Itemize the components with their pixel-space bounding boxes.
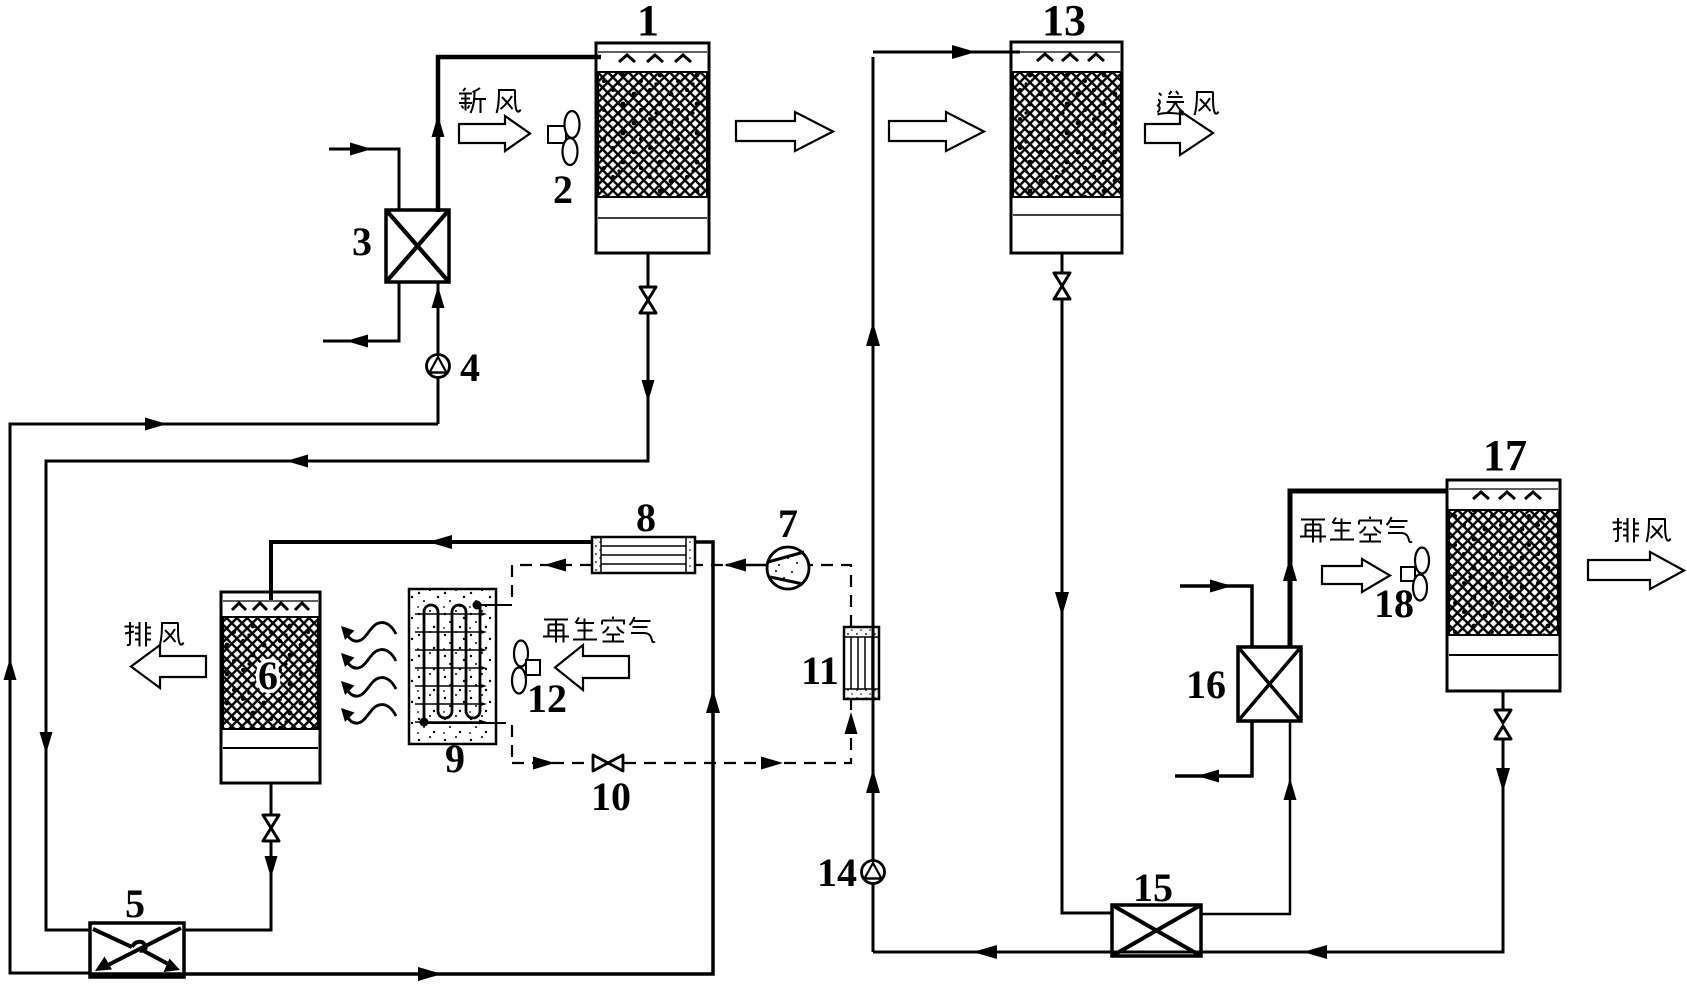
wire: dashed coil9 bottom to valve10	[512, 725, 592, 763]
flow arrow right after valve10	[761, 757, 783, 770]
flow arrow right on inlet stub	[350, 143, 372, 156]
fan 2 (square + propeller)	[548, 111, 580, 165]
svg-text:12: 12	[527, 676, 567, 721]
wire: dashed exchanger11 top to pump7	[809, 565, 851, 627]
wavy heat arrow 4	[341, 705, 396, 724]
hollow arrow exhaust air from tower17 (right)	[1588, 552, 1684, 589]
flow arrow left on hx16 outlet	[1197, 770, 1219, 783]
flow arrow down on tower1 drain	[642, 380, 655, 402]
shell heat exchanger 8 (horizontal)	[592, 537, 695, 573]
wire: bottom right line tower17 drain to pump14	[873, 691, 1503, 952]
svg-text:10: 10	[591, 774, 631, 819]
text 再生空气 (regeneration air, right)	[1300, 520, 1326, 543]
flow arrow up above exchanger16	[1283, 557, 1297, 581]
flow arrow up into exchanger16	[1284, 778, 1297, 800]
flow arrow up on pipe to tower1	[432, 115, 445, 137]
flow arrow left on y461 line	[286, 455, 308, 468]
shell heat exchanger 11 (vertical)	[844, 627, 879, 699]
svg-text:14: 14	[817, 850, 857, 895]
hollow arrow supply air out of tower13	[1145, 111, 1213, 155]
heat exchanger 15 (box with X)	[1112, 905, 1201, 956]
wire: dashed valve10 to exchanger11	[624, 699, 851, 763]
flow arrow right into tower13	[952, 45, 976, 59]
svg-text:1: 1	[637, 0, 659, 45]
wire: dashed pump7 to exchanger8	[696, 564, 723, 566]
wire: feed pipe exchanger3 to tower1 top	[438, 57, 601, 212]
wire: tower1 drain down to exchanger5 left	[46, 253, 648, 930]
svg-text:6: 6	[258, 653, 278, 698]
flow arrow up on x713 riser	[706, 689, 720, 713]
regenerator tower 17	[1447, 480, 1560, 691]
flow arrow left on dashed to coil9	[544, 559, 566, 572]
flow arrow left on y952 line	[1303, 945, 1327, 959]
dehumidifier tower 1	[596, 43, 709, 253]
wire: main riser pump14 to tower13 top	[873, 52, 1020, 952]
wire: long return line from exchanger5 to pump4	[10, 424, 438, 973]
svg-text:11: 11	[801, 648, 839, 693]
wire: pump4 riser into exchanger 3	[437, 282, 440, 424]
wire: coil9 top connector	[477, 604, 512, 606]
flow arrow right on hx16 inlet	[1210, 580, 1232, 593]
valve under tower1	[640, 287, 656, 313]
flow arrow up on x10 line	[4, 658, 17, 680]
svg-text:3: 3	[352, 219, 372, 264]
flow arrow down on tower6 drain	[265, 856, 278, 878]
flow arrow left between pump7 and exchanger8	[724, 559, 746, 572]
compressor 7 (circle with chords)	[767, 547, 809, 589]
flow arrow right before valve10	[533, 757, 555, 770]
svg-text:15: 15	[1133, 865, 1173, 910]
svg-text:9: 9	[445, 736, 465, 781]
text 送风 (supply air)	[1158, 91, 1185, 115]
hollow arrow exhaust air from tower6 (left)	[131, 645, 206, 688]
wire: dashed exchanger8 to coil9 top	[512, 565, 592, 605]
pump 4 (circle with triangle)	[427, 355, 450, 378]
heat exchanger 16 (box with X)	[1238, 647, 1301, 721]
wire: exchanger16 to tower17 top	[1290, 491, 1447, 647]
text 排风 (exhaust air, left)	[125, 622, 152, 647]
svg-text:5: 5	[125, 881, 145, 926]
valve under tower13	[1054, 273, 1070, 299]
wire: heating water inlet stub to exchanger16	[1180, 586, 1252, 647]
valve under tower6	[263, 815, 279, 841]
wire: cooling water inlet stub to exchanger 3	[329, 149, 399, 210]
flow arrow down on tower17 drain	[1496, 768, 1510, 792]
solution heat exchanger 5 (box with crossed arrows)	[90, 923, 184, 977]
dehumidifier tower 13	[1011, 42, 1122, 253]
hollow arrow into tower13	[889, 112, 984, 151]
flow arrow up on riser below tower13	[866, 322, 880, 346]
wire: bottom line exchanger5 to riser x713	[90, 542, 713, 974]
text 再生空气 (regeneration air, left)	[543, 620, 569, 643]
svg-text:18: 18	[1374, 581, 1414, 626]
hollow arrow tower1 outlet	[736, 112, 833, 151]
hollow arrow regeneration air into tower17	[1322, 559, 1390, 592]
flow arrow right on bottom line	[418, 967, 442, 981]
regenerator tower 6	[221, 592, 320, 783]
wavy heat arrow 3	[341, 678, 396, 697]
hollow arrow fresh air into tower1	[459, 116, 530, 151]
expansion valve 10 (horizontal)	[593, 755, 623, 771]
svg-text:16: 16	[1186, 662, 1226, 707]
svg-text:7: 7	[778, 501, 798, 546]
text 新风 (fresh air)	[459, 88, 486, 113]
flow arrow right on y424 line	[145, 418, 167, 431]
fan 18 (square + propeller)	[1401, 548, 1429, 601]
svg-text:13: 13	[1042, 0, 1086, 45]
flow arrow down on x46 line	[40, 732, 53, 754]
flow arrow up on riser above pump14	[866, 769, 880, 793]
wavy heat arrow 2	[341, 650, 396, 669]
text 排风 (exhaust air, right)	[1613, 518, 1640, 543]
flow arrow up above pump 4	[432, 286, 445, 308]
flow arrow up into exchanger11 bottom	[845, 712, 858, 734]
heat exchanger 3 (box with X)	[386, 210, 449, 282]
pump 14 (circle with triangle)	[862, 861, 885, 884]
hollow arrow regeneration air into tower6 (left)	[555, 645, 629, 690]
wire: exchanger15 to exchanger16	[1201, 721, 1290, 914]
wire: cooling water outlet stub from exchanger 3	[323, 282, 399, 341]
wire: heating water outlet stub from exchanger16	[1175, 721, 1252, 776]
svg-text:4: 4	[460, 345, 480, 390]
wire: tower6 drain to exchanger5 right	[184, 783, 271, 930]
wavy heat arrow 1	[341, 623, 396, 642]
flow arrow left on outlet stub	[346, 335, 368, 348]
heating coil 9	[409, 589, 496, 744]
fan 12 (propeller + square)	[512, 641, 540, 694]
flow arrow left on tower6 feed	[428, 535, 452, 549]
wire: coil9 bottom connector	[424, 722, 506, 724]
flow arrow left on y952 near pump14	[973, 945, 997, 959]
wire: exchanger8 left to tower6 top	[271, 542, 592, 600]
valve under tower17	[1495, 710, 1511, 739]
flow arrow down on tower13 drain	[1055, 592, 1069, 616]
svg-text:8: 8	[636, 495, 656, 540]
svg-text:17: 17	[1483, 431, 1527, 480]
wire: tower13 drain to exchanger15	[1062, 253, 1112, 913]
svg-text:2: 2	[553, 167, 573, 212]
